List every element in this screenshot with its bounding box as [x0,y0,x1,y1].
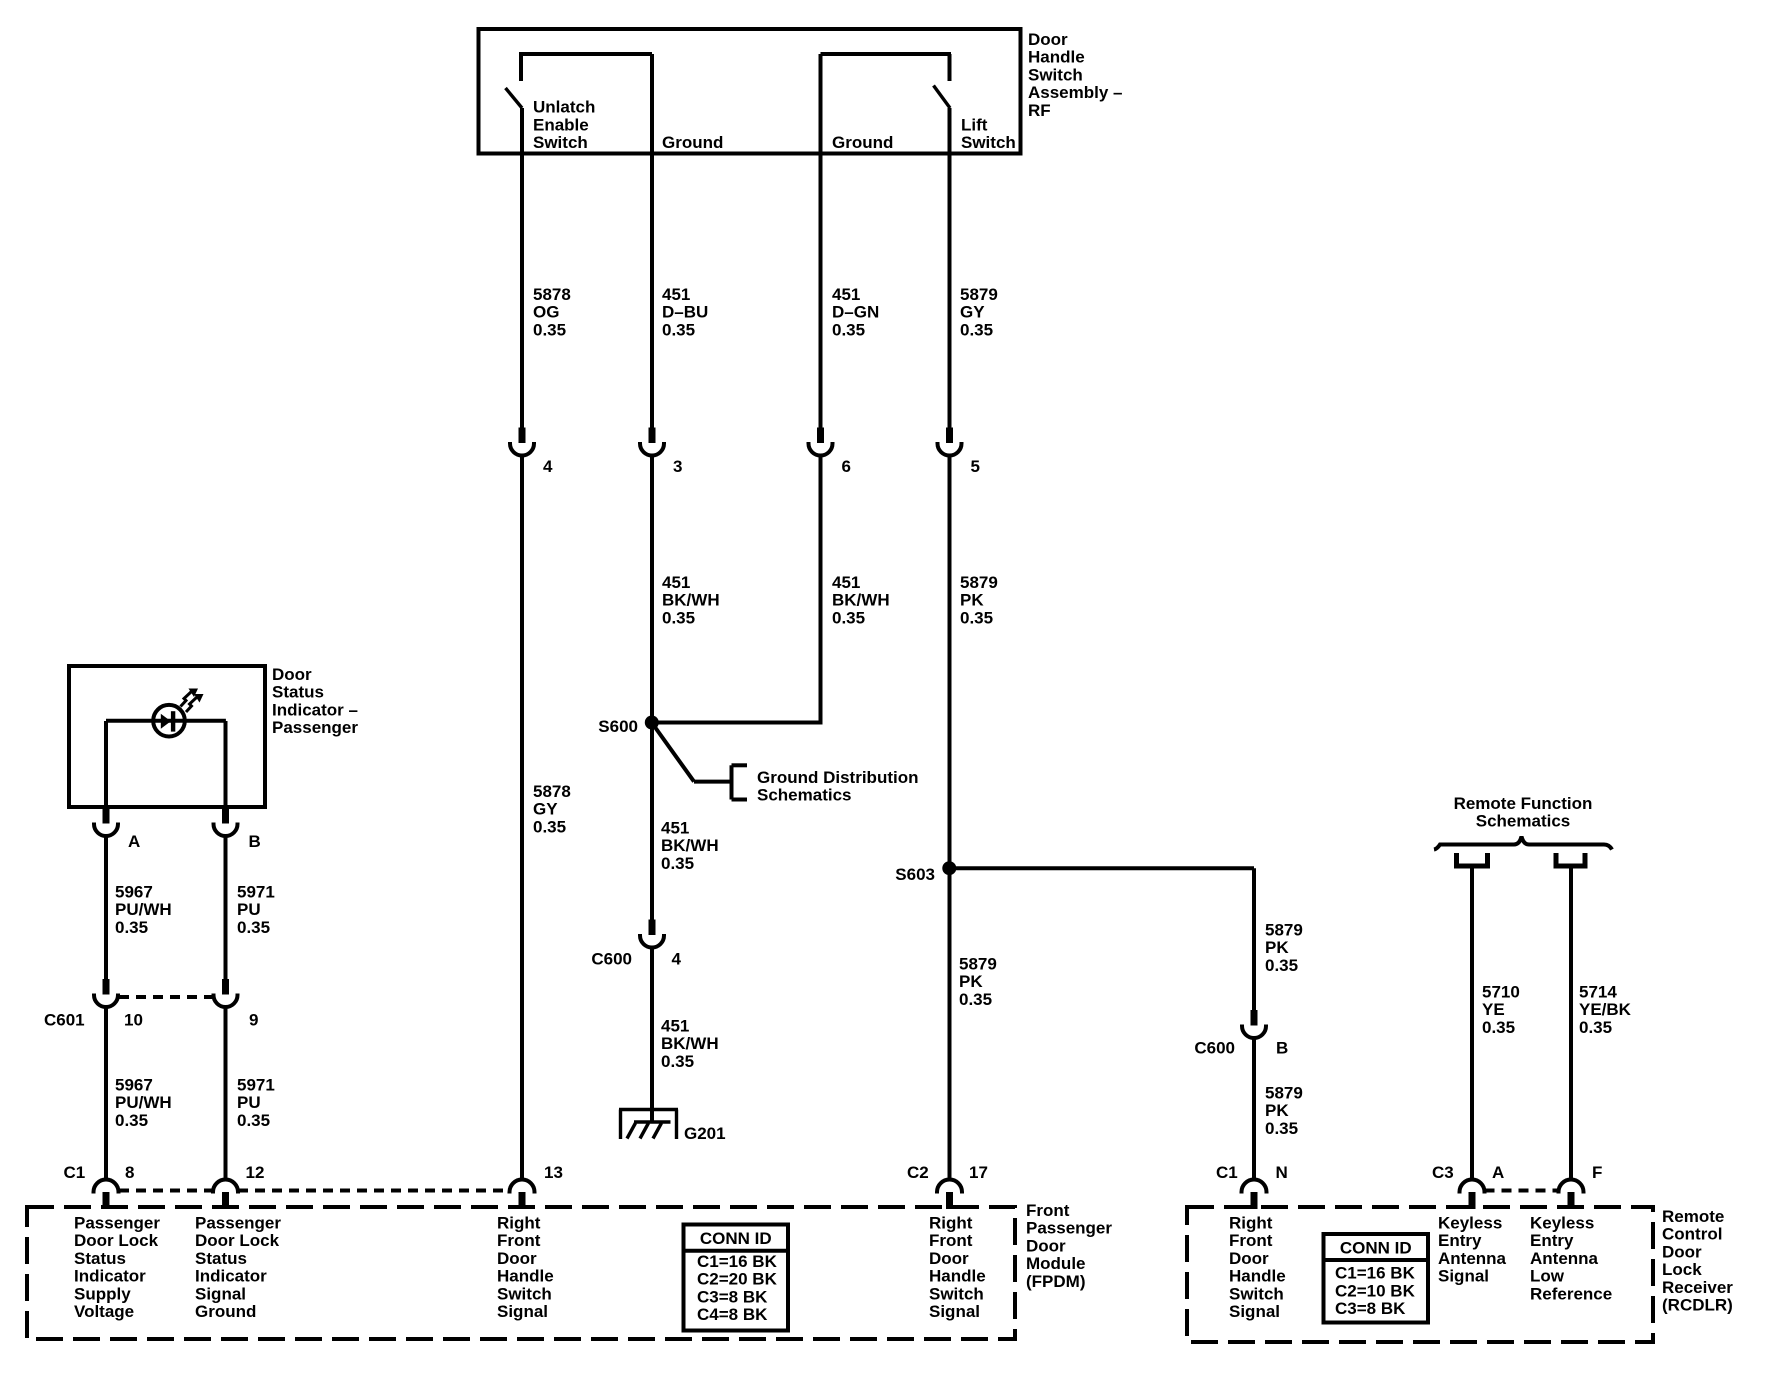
FPDM connector terminal 13 [510,1180,535,1194]
wire from LED cathode to terminal B [224,721,228,809]
connector terminal B [222,808,229,824]
wire 5967 PU/WH to C601 terminal 10 [104,834,108,979]
connector terminal 6 [817,428,824,444]
svg-text:C1=16 BKC2=10 BKC3=8 BK: C1=16 BKC2=10 BKC3=8 BK [1335,1264,1416,1318]
svg-text:UnlatchEnableSwitch: UnlatchEnableSwitch [533,98,595,152]
svg-text:4: 4 [672,950,682,969]
FPDM connector C1 terminal 8 [94,1180,119,1194]
LED indicator lamp [106,689,226,737]
wire 5971 PU to C601 terminal 9 [224,834,228,979]
svg-text:17: 17 [969,1163,988,1182]
unlatch enable switch blade [506,88,523,108]
connector terminal 5 [946,428,953,444]
unlatch enable switch S (top line + stub) [519,52,652,56]
connector terminal 3 [649,428,656,444]
svg-text:6: 6 [842,457,851,476]
connector terminal 4 [519,428,526,444]
connector terminal A [103,808,110,824]
splice S603 [942,861,956,875]
RCDLR CONN ID table [1324,1234,1429,1323]
wire segment from corner to S600 [652,721,823,725]
svg-text:C2: C2 [907,1163,929,1182]
antenna lead terminal (signal) [1457,853,1488,866]
svg-text:C1: C1 [1216,1163,1238,1182]
component box: Door Status Indicator - Passenger [69,666,265,807]
lift switch (top line + stub) [821,52,952,56]
splice S600 [645,716,659,730]
ground G201 symbol [619,1110,678,1140]
in-line connector C601 terminal 9 [222,979,229,995]
svg-text:S600: S600 [598,717,638,736]
RCDLR connector C3 terminal A [1460,1180,1485,1194]
RCDLR connector C3 terminal F [1559,1180,1584,1194]
wire 5878 GY to FPDM terminal 13 [520,454,524,1181]
svg-text:A: A [1492,1163,1504,1182]
svg-text:C601: C601 [44,1011,85,1030]
svg-text:C600: C600 [1194,1039,1235,1058]
svg-text:S603: S603 [895,865,935,884]
wire 451 BK/WH to ground G201 [650,946,654,1123]
svg-text:3: 3 [673,457,682,476]
connector C601 interconnect dashed line [119,995,213,999]
in-line connector C600 terminal 4 [649,920,656,936]
connector interconnect dashed line 8-12 [119,1189,213,1193]
antenna lead terminal (low reference) [1556,853,1585,866]
wire 5879 PK to RCDLR terminal N [1252,1036,1256,1180]
svg-text:CONN ID: CONN ID [700,1229,772,1248]
wire 5967 PU/WH to FPDM terminal 8 [104,1005,108,1180]
in-line connector C601 terminal 10 [103,979,110,995]
svg-text:CONN ID: CONN ID [1340,1239,1412,1258]
module box (dashed): Front Passenger Door Module [27,1207,1015,1339]
svg-text:4: 4 [543,457,553,476]
wire from LED anode to terminal A [104,721,108,809]
svg-text:13: 13 [544,1163,563,1182]
wire 451 D-GN from ground terminal to terminal 6 [819,54,823,428]
module box: Door Handle Switch Assembly - RF [479,29,1021,154]
svg-text:C1: C1 [64,1163,86,1182]
svg-text:12: 12 [246,1163,265,1182]
connector interconnect dashed line A-F [1485,1189,1559,1193]
wire 451 D-BU from ground terminal to terminal 3 [650,54,654,428]
wire 5878 OG from unlatch switch to terminal 4 [520,108,524,428]
wire 451 BK/WH from terminal 6 to S600 [819,454,823,723]
wire 451 BK/WH to splice S600 [650,454,654,920]
wire 5971 PU to FPDM terminal 12 [224,1005,228,1180]
svg-text:9: 9 [249,1011,258,1030]
svg-text:Ground: Ground [832,133,893,152]
svg-text:10: 10 [124,1011,143,1030]
svg-text:8: 8 [125,1163,134,1182]
FPDM CONN ID table [684,1225,789,1331]
svg-text:C600: C600 [591,950,632,969]
svg-text:C3: C3 [1432,1163,1454,1182]
svg-text:F: F [1592,1163,1602,1182]
svg-text:B: B [249,832,261,851]
svg-text:G201: G201 [684,1124,726,1143]
in-line connector C600 terminal B [1251,1010,1258,1026]
svg-text:B: B [1276,1039,1288,1058]
wire 5710 YE to RCDLR terminal A [1470,869,1474,1181]
svg-text:C1=16 BKC2=20 BKC3=8 BKC4=8 BK: C1=16 BKC2=20 BKC3=8 BKC4=8 BK [697,1252,778,1324]
wire 5714 YE/BK to RCDLR terminal F [1569,869,1573,1181]
lift switch blade [934,86,951,109]
wire 5879 PK branch from S603 to C600 terminal B [950,866,1255,870]
svg-text:A: A [128,832,140,851]
FPDM connector C2 terminal 17 [937,1180,962,1194]
FPDM connector C1 terminal 12 [213,1180,238,1194]
wire 5879 PK from terminal 5 to S603 and FPDM 17 [948,454,952,1181]
svg-text:5: 5 [971,457,980,476]
wire 5879 GY from lift switch to terminal 5 [948,108,952,428]
brace over antenna leads [1434,837,1612,850]
svg-text:Ground: Ground [662,133,723,152]
connector interconnect dashed line 12-13 [238,1189,509,1193]
RCDLR connector C1 terminal N [1242,1180,1267,1194]
module box (dashed): Remote Control Door Lock Receiver [1187,1207,1653,1342]
reference pointer to Ground Distribution Schematics [652,723,694,782]
svg-text:N: N [1276,1163,1288,1182]
